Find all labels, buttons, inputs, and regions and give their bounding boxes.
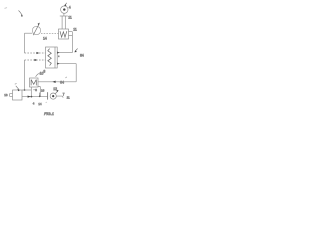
svg-text:8: 8 [43,70,45,74]
svg-text:11: 11 [67,96,70,100]
wire valve to right vertical lower [57,63,76,65]
wire twin line right [64,16,66,29]
gauge G1 (circle with dot) [61,3,68,14]
svg-text:FIG.1: FIG.1 [44,111,54,116]
wire dashed pilot line to valve upper [25,52,46,54]
pump P2 (circle with bar) [48,90,59,100]
wire dashed pilot line to valve lower [25,59,46,61]
wire bottom main line [22,96,47,98]
valve tick V2 [39,93,41,98]
faint mark under pump2 [46,101,47,104]
wire bottom return line [38,81,76,83]
svg-text:11: 11 [73,28,77,32]
wire dashed drive line pump to cooler [41,33,59,35]
tick above 64 [66,77,67,78]
wire left vertical upper [24,33,26,53]
svg-text:84: 84 [80,53,84,57]
wire cooler right port lower [69,34,73,36]
arrow on return line [52,81,55,83]
svg-text:11: 11 [68,15,72,19]
svg-text:²: ² [58,55,59,59]
wire right vertical lower [75,64,77,82]
wire tank top link [22,89,31,91]
wire gauge T-bar [60,15,68,17]
tank T1 (box) [13,90,23,100]
wire cooler right port upper [69,31,73,33]
wire pump left port [25,32,33,34]
leader arrow 84 [74,49,77,53]
wire gauge stem [63,13,65,16]
pump P1 (variable, circle with arrow) [32,23,40,36]
node 20 faint label top-left [5,8,8,9]
svg-text:7: 7 [63,92,65,96]
arrow on bottom line [28,96,31,98]
svg-text:10: 10 [40,72,44,76]
wire right vertical from cooler [71,32,73,53]
svg-text:12: 12 [53,87,57,91]
label 10 with arc [36,72,44,77]
node 2 leader arrow top-left [19,11,23,17]
wire pump2 right [56,96,63,98]
svg-text:14: 14 [43,37,47,41]
junction dot left bottom [24,89,26,91]
svg-text:4: 4 [69,6,71,10]
svg-text:64: 64 [60,81,64,85]
motor M1 (box with M) [30,78,39,87]
arrow on upper pilot line [37,52,40,54]
svg-text:14: 14 [38,102,42,106]
wire motor shaft [30,87,32,97]
arrow on lower pilot line [35,59,38,61]
wire motor right down link [38,87,40,97]
valve V1 (box with spring) [46,47,60,68]
shaft tick [33,89,36,91]
leader arrow to tank [15,84,20,92]
wire valve to right vertical upper [57,52,72,54]
svg-text:16: 16 [41,88,45,92]
wire twin line left [61,16,63,29]
junction dot shaft [31,96,33,98]
svg-text:18: 18 [4,93,8,97]
cooler U1 (box with W element) [59,29,69,39]
tank left ports [10,94,13,97]
wire left vertical lower [24,60,26,90]
